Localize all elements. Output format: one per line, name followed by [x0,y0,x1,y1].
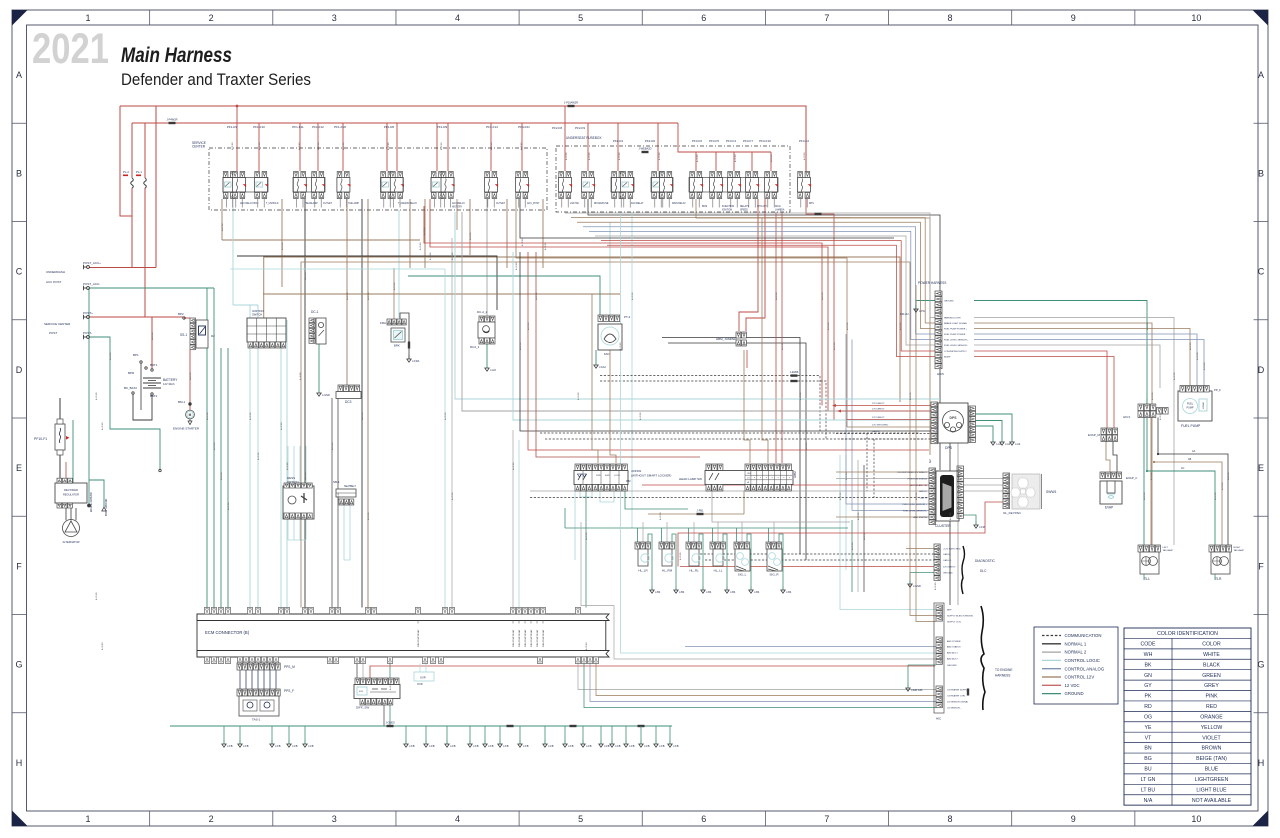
svg-text:PF2-R2: PF2-R2 [645,139,656,143]
wire lamp ground [723,534,727,586]
wire 4x4 teal down [585,491,587,608]
legend line styles [1034,627,1118,704]
svg-text:T_UNHOLD: T_UNHOLD [266,203,279,205]
svg-text:12V 30Ah: 12V 30Ah [163,382,175,386]
svg-text:DIAGNOSTIC: DIAGNOSTIC [975,559,996,563]
wire O2 sensor minus [584,664,936,708]
underseat fusebox outline [556,146,790,212]
wire cluster keypad 3 [963,490,1003,492]
svg-text:TLR: TLR [1215,577,1222,581]
svg-text:A-18 RD: A-18 RD [803,152,806,160]
svg-text:A-18 RD: A-18 RD [1203,362,1206,370]
svg-text:A: A [16,70,22,80]
wire teal to PT-2 [408,276,600,315]
wire black run to ECM [304,199,306,608]
svg-text:PT-2: PT-2 [624,315,631,319]
svg-text:A-18 RD: A-18 RD [95,592,98,600]
wire fuse feed [396,123,398,171]
wire ecm to ppsm [275,664,277,666]
svg-text:A-18 RD: A-18 RD [258,142,261,150]
wire hic row [685,646,936,648]
svg-text:ACC RELAY: ACC RELAY [452,202,465,205]
svg-text:J-FB: J-FB [629,744,635,748]
svg-text:DPS: DPS [809,203,814,205]
wire cyan bundle r2 [845,455,847,570]
svg-text:A-18 RD: A-18 RD [805,442,808,450]
wire lamp tan bus J-FB1 [648,513,744,515]
svg-text:4X4SW: 4X4SW [631,469,641,473]
svg-text:A-18 RD: A-18 RD [799,392,802,400]
wire fuse feed [299,123,301,171]
svg-text:1: 1 [85,814,90,824]
svg-text:CHX ACT: CHX ACT [757,205,768,208]
svg-text:T_GRAND RELAY: T_GRAND RELAY [398,202,417,205]
svg-text:A-18 RD: A-18 RD [1151,392,1154,400]
svg-text:A-18 RD: A-18 RD [1173,372,1176,380]
wire ecm to ppsm [239,664,241,666]
wire fuse feed [490,123,492,171]
svg-text:LOCK: LOCK [614,475,620,477]
wire dps 12v 1 [836,405,931,407]
wire dlc can lo [705,559,934,561]
svg-text:A-18 RD: A-18 RD [451,492,454,500]
svg-text:YELLOW: YELLOW [1201,725,1223,731]
wire fuse feed [587,123,589,171]
svg-text:A-18 RD: A-18 RD [304,472,307,480]
svg-text:SB-1: SB-1 [333,480,340,484]
svg-text:J-EM GPL: J-EM GPL [911,688,924,692]
wire ecm diffsw 1 [356,664,358,679]
svg-text:E: E [1258,463,1264,473]
wire red bus center [528,252,929,450]
svg-text:BG: BG [1144,756,1152,762]
svg-text:J-WEBA2D: J-WEBA2D [638,147,651,151]
svg-text:PP_F: PP_F [1214,388,1221,392]
svg-text:10: 10 [1191,814,1201,824]
svg-text:A-18 RD: A-18 RD [1146,322,1149,330]
svg-text:A-18 RD: A-18 RD [342,142,345,150]
wire fuse feed [521,123,523,171]
svg-text:PF1-F18: PF1-F18 [334,125,346,129]
wire dashed can upper [600,376,820,433]
svg-text:A-18 RD: A-18 RD [851,542,854,550]
wire diffsw down [383,705,385,726]
wire tan to HBM [744,350,750,463]
wire cyan to DESS [287,446,289,483]
wire lamp feed2 [717,522,719,542]
wire brake light [974,323,1152,545]
svg-text:CONTROL LOGIC: CONTROL LOGIC [1065,658,1100,663]
wire tan feed DPS [516,199,847,427]
wire cyan from DESS [293,519,295,540]
wire black route mid [520,199,894,238]
svg-text:A-18 RD: A-18 RD [527,322,530,330]
svg-text:FUEL LEVEL SENSOR -: FUEL LEVEL SENSOR - [903,511,927,513]
svg-text:B: B [16,168,22,178]
svg-text:OG: OG [1144,714,1152,720]
wire tan route 1 [222,239,420,241]
wire evap blk [1113,441,1117,472]
svg-text:PINK: PINK [1205,694,1218,700]
svg-text:•: • [766,477,767,480]
svg-text:O2 SENSOR-: O2 SENSOR- [947,708,961,710]
svg-text:J-B4: J-B4 [706,590,712,594]
svg-text:10: 10 [1191,13,1201,23]
svg-text:BUMP: BUMP [944,357,951,359]
svg-text:UNDERDASH: UNDERDASH [46,270,65,274]
wire cyan to ECM 2 [257,305,259,608]
ECM connector B bar [197,614,609,621]
svg-text:REGULATOR: REGULATOR [63,493,79,497]
svg-text:PF3-F2: PF3-F2 [799,139,809,143]
svg-text:12 VDC: 12 VDC [1065,683,1080,688]
svg-text:F: F [16,561,22,571]
svg-text:FUEL LEVEL SENSOR -: FUEL LEVEL SENSOR - [944,345,968,347]
wire CAN bus dashed 2 [545,438,925,440]
svg-text:BEIGE (TAN): BEIGE (TAN) [1196,756,1227,762]
wire acc- engine ground run [88,288,90,504]
svg-text:A-18 RD: A-18 RD [775,292,778,300]
svg-text:HL_RM: HL_RM [662,569,673,573]
wire lamp feed [736,528,738,542]
svg-text:GROUND: GROUND [947,665,957,667]
svg-text:FRA: FRA [380,321,386,325]
wire red to HBM jumper 2 [746,199,765,331]
svg-text:4: 4 [455,814,460,824]
wire dps ground 2 [975,421,1002,439]
wire battery positive [151,317,153,369]
splice J-WEBA2D [642,151,649,153]
post POST+ [87,316,90,319]
wire hic5 feed staircase [589,231,935,339]
svg-text:J-P10AW2R: J-P10AW2R [564,101,578,105]
wire cyan bus center 2 [513,252,945,420]
wire tan to 4X4SW [592,294,598,463]
wire rectifier sense [65,462,67,483]
svg-text:PF1-F10: PF1-F10 [253,125,265,129]
svg-text:A-18 RD: A-18 RD [957,472,960,480]
svg-text:A-18 RD: A-18 RD [1159,412,1162,420]
svg-text:FUEL PUMP POWER -: FUEL PUMP POWER - [944,334,967,336]
wire red to HBM switch [775,212,777,463]
svg-text:A-18 RD: A-18 RD [1227,472,1230,480]
wire blk bundle r5 [863,465,865,592]
svg-text:BU: BU [1144,767,1151,773]
svg-text:POST-: POST- [83,331,92,335]
svg-text:A-18 RD: A-18 RD [639,412,642,420]
wire hic row [908,664,936,666]
svg-text:BATTERY: BATTERY [163,378,178,382]
wire dps 12v 3 [846,419,931,421]
svg-text:ALTERNATOR: ALTERNATOR [62,540,79,544]
svg-text:PPS_M: PPS_M [284,665,295,669]
ECM bottom pin cells [204,657,209,664]
svg-text:A-18 RD: A-18 RD [469,232,472,240]
svg-text:SIG_R: SIG_R [769,573,779,577]
svg-text:FUEL LEVEL SENSOR +: FUEL LEVEL SENSOR + [944,340,969,342]
svg-text:OUTLET: OUTLET [496,203,506,205]
svg-text:ACC AT ABC ON: ACC AT ABC ON [910,484,927,487]
svg-text:A-18 RD: A-18 RD [521,238,524,246]
svg-text:HL_LL: HL_LL [714,569,723,573]
wire gray bus center [462,212,958,605]
wire lamp ground [699,534,703,586]
wire taillamp link teal [1147,471,1215,545]
wire hic ground drop [907,665,909,684]
svg-text:ACC_POST: ACC_POST [527,202,540,205]
svg-text:J-A4: J-A4 [1015,442,1021,446]
wire black bus center [520,252,950,605]
wire teal bundle to ECM [206,288,208,608]
svg-text:PF3-F5: PF3-F5 [709,139,719,143]
svg-text:POWER HARNESS: POWER HARNESS [918,281,946,285]
svg-text:A-18 RD: A-18 RD [781,342,784,350]
svg-text:A-18 RD: A-18 RD [618,152,621,160]
wire ppsm to ppsf [269,670,271,689]
wire hic3 blk down [1157,418,1159,455]
splice FRA [408,342,410,349]
wire tan to cluster zone [696,199,930,455]
svg-text:A-18 RD: A-18 RD [631,292,634,300]
svg-text:J-B4: J-B4 [786,590,792,594]
svg-text:OUTLET: OUTLET [323,203,333,205]
wire ecm to ppsm [269,664,271,666]
svg-text:A-18 RD: A-18 RD [519,342,522,350]
svg-text:RECTIFIER: RECTIFIER [64,488,78,492]
svg-text:BK: BK [1145,662,1152,668]
svg-text:CLUSTER: CLUSTER [935,524,951,528]
svg-text:AND ACT1: AND ACT1 [947,652,958,655]
svg-text:A-18 RD: A-18 RD [696,154,699,162]
wire bump [974,357,1114,429]
svg-text:HISTORY: HISTORY [452,206,463,208]
svg-text:J-GND: J-GND [322,393,330,397]
svg-text:A-18 RD: A-18 RD [109,352,112,360]
svg-text:A-18 RD: A-18 RD [281,242,284,250]
wire hic5 feed staircase [601,241,935,351]
svg-text:PF4-F21: PF4-F21 [518,125,530,129]
svg-text:TAS-1: TAS-1 [252,718,261,722]
svg-text:A-18 RD: A-18 RD [389,682,392,690]
svg-text:12V DIRECT: 12V DIRECT [872,417,885,419]
svg-text:A-18 RD: A-18 RD [1214,492,1217,500]
wire PF10-F1 to rectifier [59,455,61,480]
svg-text:A-18 RD: A-18 RD [899,322,902,330]
wire cyan ign to ECM 2 [286,320,288,608]
svg-text:PF1-R9: PF1-R9 [437,125,448,129]
svg-text:A-18 RD: A-18 RD [490,142,493,150]
svg-text:RF/NAVFUSE: RF/NAVFUSE [594,202,609,205]
wire tan to HBM 2 [762,218,768,463]
svg-text:RED: RED [1206,704,1217,710]
wire cyan to ECM [249,305,251,608]
svg-text:GROUND: GROUND [1065,691,1084,696]
wire battery negative loop [133,394,152,420]
svg-text:A-18 RD: A-18 RD [206,412,209,420]
wire black CAN feed lo [668,343,806,560]
differential switch DIFF_SW [355,678,360,685]
svg-text:FAN: FAN [604,352,609,356]
wire teal bundle to ECM 3 [220,348,222,608]
svg-text:CAN LO: CAN LO [943,559,951,562]
wire dashed vert to cluster [866,433,868,491]
svg-text:FUEL PUMP RELAY: FUEL PUMP RELAY [524,629,527,647]
svg-text:ACC RELAY BCU: ACC RELAY BCU [240,202,259,205]
svg-text:WH: WH [1144,652,1153,658]
svg-text:G2: G2 [928,459,932,463]
wire blk DC3 down [331,398,333,608]
svg-text:A-18 RD: A-18 RD [304,272,307,280]
wire bp2 [184,317,190,319]
switch 4X4SW [575,464,580,471]
svg-text:PL-1: PL-1 [136,170,142,174]
svg-text:J-GND: J-GND [913,584,921,588]
ground DC-1 [318,389,320,393]
svg-text:J-PG: J-PG [919,309,925,313]
wire gray to ecm cell [512,430,514,608]
svg-text:1: 1 [85,13,90,23]
svg-text:DC-1: DC-1 [311,310,319,314]
wire tan route 3 [263,293,620,295]
svg-text:GY: GY [1144,683,1152,689]
svg-text:A-18 RD: A-18 RD [151,332,154,340]
svg-text:GN: GN [1144,673,1152,679]
svg-text:CLOCK/POWER 12V DIRECT: CLOCK/POWER 12V DIRECT [897,472,927,474]
wire cyan wrap to HIC [621,212,936,653]
wire fuse feed [447,123,449,171]
svg-text:A-18 RD: A-18 RD [189,372,192,380]
splice J-GND7 [570,725,577,727]
svg-text:RD: RD [1144,704,1152,710]
wire lamp ground [648,534,652,586]
svg-text:B: B [1258,168,1264,178]
wire fuse output tan [424,199,426,268]
wire PL-1 upper lead [144,123,146,178]
svg-text:COLOR: COLOR [1202,642,1221,648]
wire tan to 4X4SW 2 [610,350,616,463]
svg-text:A-18 RD: A-18 RD [95,392,98,400]
wire dashed vert to cluster2 [873,439,875,498]
wire parking light [974,318,1174,546]
svg-text:6: 6 [701,814,706,824]
svg-text:A-18 RD: A-18 RD [619,342,622,350]
svg-text:J-FM: J-FM [979,525,985,529]
svg-text:A-18 RD: A-18 RD [231,142,234,150]
svg-text:D: D [16,365,23,375]
svg-text:A-18 RD: A-18 RD [280,422,283,430]
svg-text:J-FB: J-FB [586,744,592,748]
svg-text:PUMP: PUMP [1187,407,1194,410]
svg-text:LSD SW: LSD SW [570,203,580,205]
svg-text:CODE: CODE [1141,642,1157,648]
fuse bottom pin stubs [225,199,227,208]
svg-text:A-18 RD: A-18 RD [659,512,662,520]
svg-text:BM-UH: BM-UH [900,312,909,316]
wire black route [237,256,497,310]
svg-text:AND POWER: AND POWER [947,640,961,643]
svg-text:SEATBELT: SEATBELT [344,485,356,488]
wire lamp feed2 [741,522,743,542]
ground FRA [408,355,410,359]
wire cyan run to FAN [398,210,400,318]
wire blue fuel level link2 [851,340,853,511]
svg-text:6: 6 [701,13,706,23]
wire hic5 feed staircase [571,218,935,323]
svg-text:LEFT: LEFT [1163,547,1169,549]
wire hic5 feed staircase [595,236,935,345]
svg-text:SERVICE CENTER: SERVICE CENTER [44,322,71,326]
wire 12V inner left drop [131,123,133,178]
svg-text:Main Harness: Main Harness [121,44,232,67]
wire teal bundle to ECM 4 [227,348,229,608]
svg-text:A-18 RD: A-18 RD [1189,342,1192,350]
svg-text:TLL: TLL [1144,577,1150,581]
svg-text:A-18 RD: A-18 RD [565,152,568,160]
fan PT-2 [598,315,603,322]
svg-text:CONTROL 12V: CONTROL 12V [1065,675,1095,680]
ground hic5 [915,305,917,309]
svg-text:J-GND5: J-GND5 [385,721,395,725]
svg-text:8: 8 [948,13,953,23]
wire PF3 fuse feed [751,152,753,171]
wire ovr 1 [419,664,421,673]
svg-text:MAIN RELAY: MAIN RELAY [672,202,686,205]
svg-text:N/A: N/A [1144,798,1153,804]
svg-text:M: M [189,413,192,417]
wire dps 12v 2 [841,410,931,412]
wire gray wrap to HIC [581,522,936,659]
wire red jumper stub [746,350,748,368]
svg-text:A-18 RD: A-18 RD [512,462,515,470]
splice J-GND6 [967,689,969,696]
wire cyan mid down [444,269,446,608]
wire ecm to ppsm [245,664,247,666]
svg-text:DC-2_2: DC-2_2 [477,310,488,314]
wire 4x4 cyan down [574,491,576,560]
wire cyan to DESS [293,446,295,483]
svg-text:SUPPLY INJECTORS/IGN: SUPPLY INJECTORS/IGN [947,616,973,618]
wire lamp feed2 [693,522,695,542]
wire cluster input [530,490,929,492]
wire lamp feed [637,528,639,542]
svg-text:ORANGE: ORANGE [1200,714,1223,720]
wire ppsm to ppsf [251,670,253,689]
svg-text:7: 7 [824,814,829,824]
svg-text:CONVERTER SUPPLY: CONVERTER SUPPLY [944,351,967,353]
svg-text:BN: BN [1144,746,1151,752]
wire teal below ECM [389,664,391,727]
svg-text:DIFF_SW: DIFF_SW [356,706,369,710]
svg-text:A-18 RD: A-18 RD [286,462,289,470]
svg-text:J-P4W2R: J-P4W2R [166,118,177,122]
svg-text:12V DIRECT: 12V DIRECT [872,409,885,411]
wire acc riser [155,106,157,268]
wire cyan to ecm cell [518,440,520,608]
svg-text:A-18 RD: A-18 RD [833,342,836,350]
svg-text:A-18 RD: A-18 RD [317,142,320,150]
svg-text:LO: LO [747,478,750,480]
svg-text:9: 9 [1071,13,1076,23]
wire CAN bus dashed 1 [540,432,920,434]
wire red to HBM switch2 [781,212,783,463]
wire hic5 feed staircase [583,227,935,334]
svg-text:FUEL PUMP RELAY: FUEL PUMP RELAY [542,629,545,647]
wire blk DC3 down2 [337,398,339,608]
wire cyan from relay [232,199,234,305]
svg-text:A: A [1258,70,1264,80]
wire 12V top bus outer [120,106,806,172]
svg-text:EVAP: EVAP [1105,506,1113,510]
